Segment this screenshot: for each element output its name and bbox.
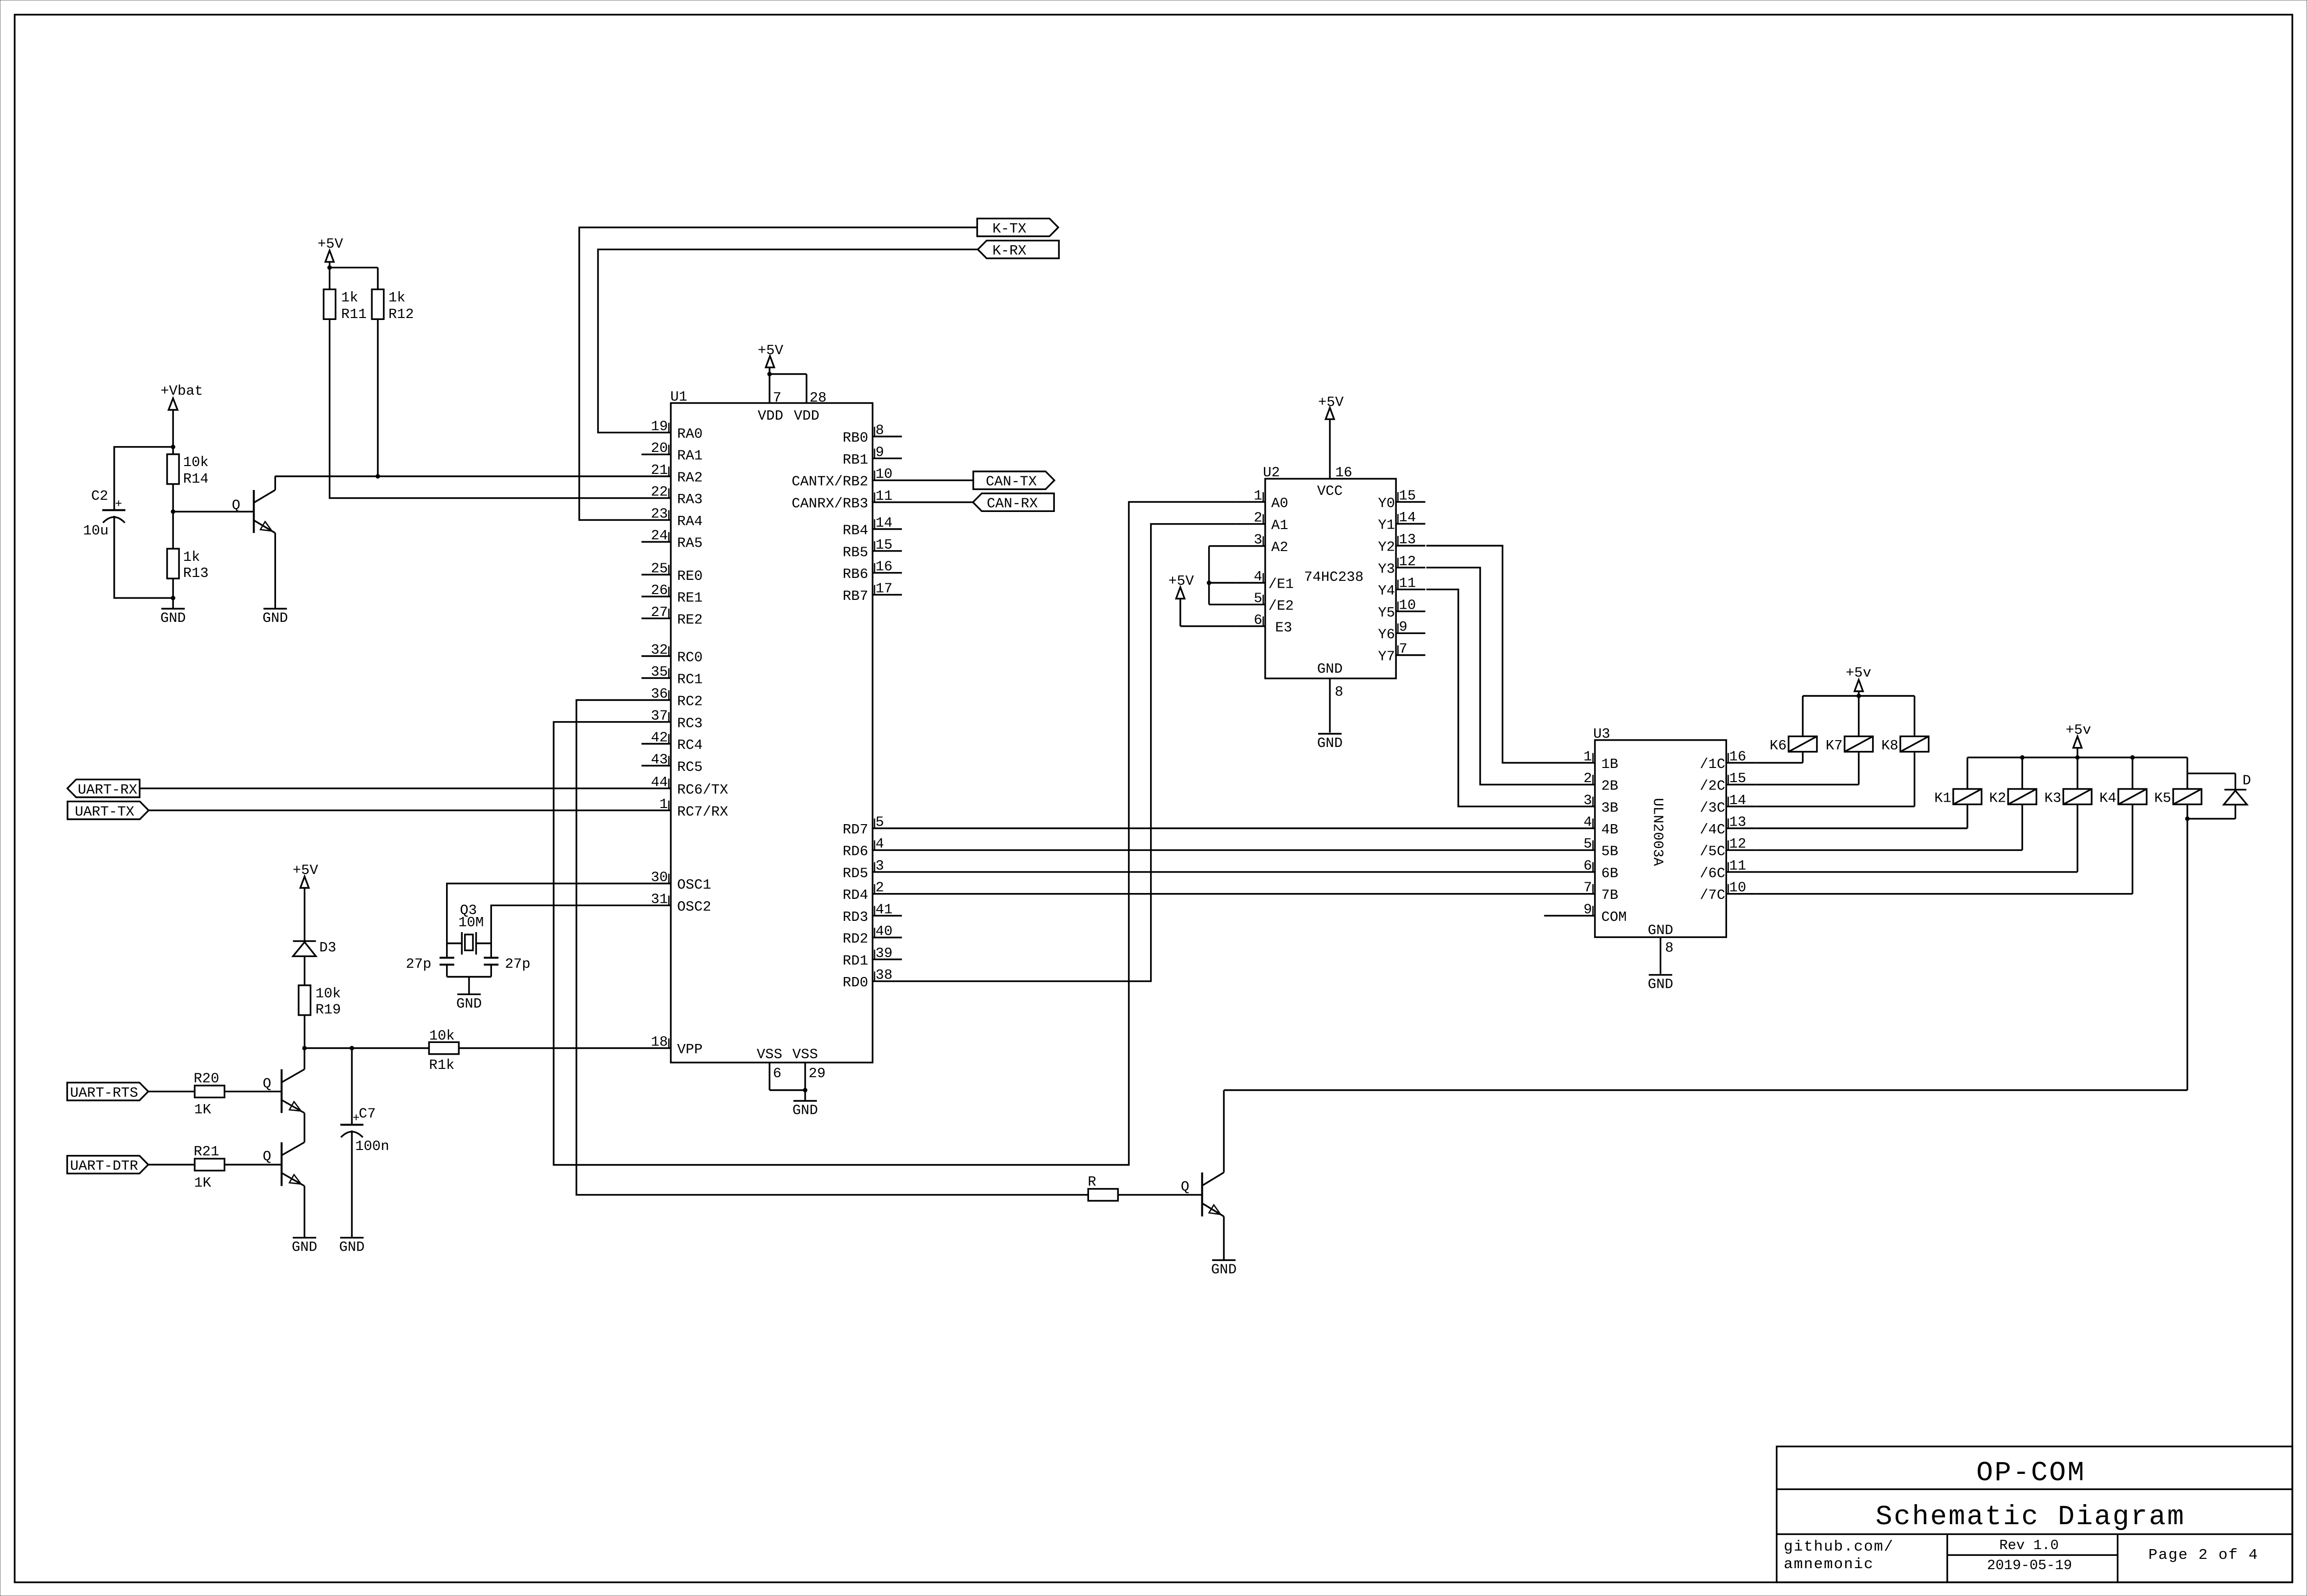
wire /3C to K8 <box>1755 806 1914 807</box>
crystal Q3 10M <box>447 902 491 955</box>
svg-text:RC5: RC5 <box>677 759 703 775</box>
svg-text:C2: C2 <box>91 488 108 504</box>
svg-text:5: 5 <box>876 814 884 830</box>
wire C7 bottom <box>351 1137 353 1238</box>
svg-text:RB7: RB7 <box>843 588 868 604</box>
U3 pin 6 6B <box>1566 858 1619 882</box>
svg-text:2: 2 <box>1583 770 1592 787</box>
svg-text:RC3: RC3 <box>677 715 703 731</box>
title block divider line 2 <box>1777 1533 2293 1535</box>
svg-text:1K: 1K <box>194 1175 211 1191</box>
svg-text:40: 40 <box>876 923 893 939</box>
wire R12 bottom to RA2 net <box>377 319 379 476</box>
wire VDD pin 28 stub <box>806 374 807 403</box>
svg-text:VSS: VSS <box>757 1046 782 1063</box>
svg-text:10u: 10u <box>83 523 108 539</box>
svg-text:24: 24 <box>651 528 668 544</box>
svg-text:U2: U2 <box>1263 465 1280 481</box>
svg-text:38: 38 <box>876 967 893 983</box>
wire RB2 to CAN-TX <box>902 480 973 481</box>
wire /1C to K6 <box>1755 762 1803 764</box>
svg-text:RA4: RA4 <box>677 513 703 530</box>
svg-text:RB4: RB4 <box>843 523 868 539</box>
svg-text:11: 11 <box>876 488 893 504</box>
svg-text:RE1: RE1 <box>677 590 703 606</box>
flag UART-TX <box>67 802 149 820</box>
ground U3 <box>1648 975 1673 993</box>
U1 pin 1 RC7/RX <box>641 796 728 820</box>
svg-text:RD5: RD5 <box>843 865 868 881</box>
relay coil K6 <box>1770 736 1817 754</box>
svg-text:Y3: Y3 <box>1378 561 1395 577</box>
U2 pin 4 /E1 <box>1236 569 1294 593</box>
U1 pin 14 RB4 <box>843 515 902 539</box>
U2 pin 10 Y5 <box>1378 597 1425 621</box>
U1 pin 38 RD0 <box>843 967 902 991</box>
svg-text:VPP: VPP <box>677 1042 703 1058</box>
IC U1 body <box>671 403 873 1063</box>
U2 pin 11 Y4 <box>1378 575 1425 599</box>
resistor R13 <box>167 549 209 581</box>
wire R21 to Q base <box>225 1164 281 1165</box>
wire R20 to Q base <box>225 1091 281 1092</box>
wire UART-TX to RC7 <box>149 809 641 811</box>
svg-text:8: 8 <box>876 423 884 439</box>
wire K8 coil top <box>1914 696 1915 737</box>
svg-text:20: 20 <box>651 440 668 456</box>
svg-text:1B: 1B <box>1602 756 1619 772</box>
svg-text:10: 10 <box>1399 597 1416 613</box>
svg-text:5B: 5B <box>1602 844 1619 860</box>
ground Q sense <box>262 609 288 626</box>
svg-text:E3: E3 <box>1275 619 1292 636</box>
wire caps to gnd rail <box>446 965 448 977</box>
capacitor 27p left <box>406 956 454 972</box>
wire R14 bottom to base node <box>172 484 174 512</box>
wire relay coil top at 4252.2 <box>2077 758 2078 789</box>
wire R14 top lead <box>172 447 174 454</box>
ground crystal <box>456 994 482 1012</box>
svg-text:K-TX: K-TX <box>992 221 1026 237</box>
svg-text:RD4: RD4 <box>843 887 868 903</box>
transistor Q (DTR) <box>263 1142 304 1186</box>
resistor R (base) <box>1088 1174 1118 1201</box>
svg-text:14: 14 <box>876 515 893 531</box>
svg-text:14: 14 <box>1729 792 1746 809</box>
U1 pin 16 RB6 <box>843 559 902 583</box>
svg-text:RC1: RC1 <box>677 672 703 688</box>
svg-text:UART-RTS: UART-RTS <box>70 1085 138 1101</box>
U1 pin 27 RE2 <box>641 604 703 628</box>
svg-text:14: 14 <box>1399 510 1416 526</box>
ground C7 <box>339 1238 364 1256</box>
wire OSC1 to crystal <box>447 884 641 944</box>
resistor R14 <box>167 454 209 487</box>
svg-text:35: 35 <box>651 664 668 680</box>
svg-text:+5v: +5v <box>2066 722 2091 738</box>
svg-text:10: 10 <box>876 466 893 482</box>
wire +5v rail K1-K5 <box>1967 757 2187 758</box>
wire relay coil top at 4364.8 <box>2132 758 2133 789</box>
svg-text:31: 31 <box>651 891 668 907</box>
svg-text:1k: 1k <box>341 290 358 306</box>
wire COM pin 9 extra stub <box>1544 915 1566 916</box>
svg-text:GND: GND <box>1317 661 1343 677</box>
U1 pin 23 RA4 <box>641 506 703 530</box>
svg-text:RC0: RC0 <box>677 650 703 666</box>
svg-text:18: 18 <box>651 1034 668 1050</box>
wire K5 drive horizontal to Q collector <box>1224 1089 2187 1091</box>
svg-text:10k: 10k <box>183 454 209 470</box>
junction dot K4 rail <box>2130 755 2135 760</box>
capacitor 27p right <box>484 956 530 972</box>
svg-text:4B: 4B <box>1602 822 1619 838</box>
svg-text:RD3: RD3 <box>843 909 868 925</box>
svg-text:3: 3 <box>876 858 884 874</box>
relay coil K1 <box>1934 789 1982 807</box>
svg-text:A0: A0 <box>1271 495 1288 511</box>
svg-text:Page 2 of 4: Page 2 of 4 <box>2148 1547 2259 1564</box>
svg-text:Y6: Y6 <box>1378 627 1395 643</box>
svg-text:RD2: RD2 <box>843 931 868 947</box>
svg-text:8: 8 <box>1335 684 1343 700</box>
wire /6C to K3 <box>1755 871 2077 872</box>
wire VSS pin 6 stub <box>769 1063 770 1090</box>
relay coil K8 <box>1881 736 1929 754</box>
svg-text:4: 4 <box>1583 814 1592 830</box>
svg-text:44: 44 <box>651 774 668 790</box>
junction dot K5/diode node <box>2185 816 2190 821</box>
svg-text:100n: 100n <box>355 1138 389 1154</box>
wire net RC3 to A0 <box>554 502 1236 1165</box>
U3 pin 5 5B <box>1566 836 1619 860</box>
ground U1 VSS <box>792 1101 818 1119</box>
wire C7 top lead <box>351 1048 353 1125</box>
svg-text:K6: K6 <box>1770 738 1787 754</box>
U1 pin 35 RC1 <box>641 664 703 688</box>
wire net RD4 to 7B <box>902 893 1566 894</box>
svg-text:GND: GND <box>339 1239 364 1256</box>
svg-text:GND: GND <box>456 996 482 1012</box>
U2 pin 9 Y6 <box>1378 619 1425 643</box>
svg-text:39: 39 <box>876 945 893 961</box>
resistor R19 <box>299 985 341 1018</box>
wire R12 top lead <box>377 268 379 290</box>
svg-text:42: 42 <box>651 730 668 746</box>
svg-text:R20: R20 <box>193 1071 219 1087</box>
wire Vbat node to C2 top <box>114 447 173 511</box>
U1 pin 37 RC3 <box>641 708 703 732</box>
flag UART-RX <box>67 780 140 798</box>
svg-text:+Vbat: +Vbat <box>160 383 203 399</box>
wire K7 coil top <box>1858 696 1859 737</box>
capacitor C7 (100n polarized) <box>341 1106 389 1154</box>
svg-text:13: 13 <box>1729 814 1746 830</box>
wire K6 coil top <box>1802 696 1803 737</box>
svg-text:Schematic Diagram: Schematic Diagram <box>1876 1502 2185 1533</box>
svg-text:R1k: R1k <box>429 1057 454 1073</box>
U1 pin 30 OSC1 <box>641 870 711 894</box>
wire RA2 net horizontal <box>275 475 642 477</box>
svg-text:17: 17 <box>876 580 893 596</box>
wire net Y2 to 1B <box>1426 546 1565 763</box>
svg-text:Y1: Y1 <box>1378 517 1395 533</box>
svg-text:Y4: Y4 <box>1378 583 1395 599</box>
svg-text:RA1: RA1 <box>677 448 703 464</box>
svg-text:COM: COM <box>1602 909 1627 925</box>
svg-text:UART-RX: UART-RX <box>78 782 137 798</box>
U1 pin 42 RC4 <box>641 730 703 754</box>
diode D (flyback) <box>2224 773 2251 805</box>
resistor R1k (10k) <box>429 1028 459 1073</box>
wire VSS pin 29 stub <box>804 1063 806 1090</box>
svg-text:github.com/: github.com/ <box>1784 1538 1894 1555</box>
wire R to Q base <box>1118 1194 1201 1195</box>
svg-text:/5C: /5C <box>1700 844 1725 860</box>
junction dot base node <box>171 510 175 514</box>
svg-text:VDD: VDD <box>794 408 819 424</box>
U3 pin 9 COM <box>1566 901 1627 925</box>
ground Q driver <box>1211 1260 1237 1278</box>
svg-text:GND: GND <box>262 610 288 626</box>
wire RB3 to CAN-RX <box>902 501 973 503</box>
svg-text:16: 16 <box>876 559 893 575</box>
U1 pin 9 RB1 <box>843 444 902 468</box>
junction dot C7 top <box>350 1046 354 1050</box>
svg-text:ULN2003A: ULN2003A <box>1650 798 1666 866</box>
wire relay coil top at 4139.2 <box>2022 758 2023 789</box>
svg-text:15: 15 <box>1399 488 1416 504</box>
power +5V symbol at U2 E3 <box>1168 573 1194 626</box>
U1 pin 41 RD3 <box>843 901 902 925</box>
svg-text:13: 13 <box>1399 532 1416 548</box>
wire Q RTS emitter to Q DTR collector <box>304 1113 305 1142</box>
power +5V symbol at U1 VDD <box>758 342 784 374</box>
svg-text:/2C: /2C <box>1700 778 1725 794</box>
wire diode bottom to K5 node <box>2235 805 2236 819</box>
wire U2 GND pin 8 stub <box>1329 679 1330 733</box>
junction dot K3 rail <box>2075 755 2080 760</box>
svg-text:RC2: RC2 <box>677 694 703 710</box>
wire /E2 link <box>1209 604 1236 605</box>
svg-text:D3: D3 <box>320 940 337 956</box>
svg-text:Q: Q <box>263 1076 271 1092</box>
IC U3 body <box>1595 740 1727 937</box>
wire K5 bottom to node <box>2186 805 2188 819</box>
U3 pin 13 /4C <box>1700 814 1755 838</box>
wire C2 bottom <box>114 523 173 598</box>
svg-text:GND: GND <box>292 1239 317 1256</box>
svg-text:1k: 1k <box>388 290 406 306</box>
transistor Q (RTS) <box>263 1069 304 1113</box>
wire to ground <box>172 598 174 609</box>
U3 pin 3 3B <box>1566 792 1619 816</box>
svg-text:VCC: VCC <box>1317 483 1343 499</box>
wire OSC2 to crystal <box>491 905 641 943</box>
svg-text:RB6: RB6 <box>843 566 868 582</box>
svg-text:D: D <box>2243 773 2251 789</box>
resistor R12 <box>372 289 414 322</box>
svg-text:36: 36 <box>651 686 668 702</box>
wire VPP net right segment <box>459 1047 641 1049</box>
svg-text:CANRX/RB3: CANRX/RB3 <box>791 496 868 512</box>
svg-text:/1C: /1C <box>1700 756 1725 772</box>
svg-text:7: 7 <box>773 390 781 406</box>
svg-text:GND: GND <box>1317 735 1343 751</box>
power +5V symbol D3 <box>293 862 319 941</box>
junction dot R12/RA2 <box>376 474 380 478</box>
svg-text:RD1: RD1 <box>843 953 868 969</box>
svg-text:RA5: RA5 <box>677 535 703 552</box>
U1 pin 32 RC0 <box>641 642 703 666</box>
svg-text:K3: K3 <box>2044 790 2061 807</box>
svg-text:CAN-TX: CAN-TX <box>986 474 1037 490</box>
U1 pin 25 RE0 <box>641 560 703 584</box>
svg-text:7: 7 <box>1399 641 1407 657</box>
U1 pin 2 RD4 <box>843 880 902 904</box>
U3 pin 10 /7C <box>1700 880 1755 904</box>
svg-text:1: 1 <box>1583 748 1592 765</box>
ground Q pair <box>292 1238 317 1256</box>
wire net Y3 to 2B <box>1426 568 1565 785</box>
wire /E1 link <box>1209 582 1236 583</box>
svg-text:1K: 1K <box>194 1102 211 1118</box>
svg-text:10: 10 <box>1729 880 1746 896</box>
U1 pin 22 RA3 <box>641 484 703 508</box>
flag CAN-TX <box>973 471 1054 490</box>
svg-text:27p: 27p <box>406 956 431 972</box>
U1 pin 39 RD1 <box>843 945 902 969</box>
U2 pin 5 /E2 <box>1236 590 1294 614</box>
svg-text:OP-COM: OP-COM <box>1976 1458 2086 1489</box>
wire VDD pin 7 stub <box>769 374 770 403</box>
wire U1 GND stem <box>804 1090 806 1101</box>
wire base node to Q base <box>173 511 253 512</box>
svg-text:R14: R14 <box>183 471 209 487</box>
U3 pin 14 /3C <box>1700 792 1755 816</box>
wire A2 link <box>1209 545 1236 547</box>
U1 pin 5 RD7 <box>843 814 902 838</box>
svg-text:10M: 10M <box>458 915 484 931</box>
svg-text:25: 25 <box>651 560 668 576</box>
wire crystal gnd stem <box>468 977 470 995</box>
U1 pin 17 RB7 <box>843 580 902 604</box>
wire A2-/E1-/E2 tie vertical <box>1208 546 1210 605</box>
junction dot VSS node <box>803 1088 807 1092</box>
svg-text:8: 8 <box>1665 940 1673 956</box>
svg-text:43: 43 <box>651 751 668 767</box>
U1 pin 18 VPP <box>641 1034 703 1058</box>
svg-text:R13: R13 <box>183 565 209 581</box>
junction dot K7 rail <box>1857 694 1861 698</box>
U2 pin 3 A2 <box>1236 532 1288 556</box>
svg-text:27: 27 <box>651 604 668 620</box>
svg-text:11: 11 <box>1729 858 1746 874</box>
svg-text:4: 4 <box>1254 569 1262 585</box>
svg-text:K5: K5 <box>2154 790 2171 807</box>
svg-text:1k: 1k <box>183 549 200 565</box>
svg-text:Y7: Y7 <box>1378 649 1395 665</box>
svg-text:U3: U3 <box>1593 726 1610 742</box>
wire +5v rail K6-K8 <box>1803 695 1915 697</box>
svg-text:5: 5 <box>1583 836 1592 852</box>
svg-text:/3C: /3C <box>1700 800 1725 816</box>
U2 pin 12 Y3 <box>1378 553 1425 577</box>
svg-text:UART-TX: UART-TX <box>75 804 134 820</box>
svg-text:K7: K7 <box>1826 738 1843 754</box>
svg-text:11: 11 <box>1399 575 1416 592</box>
U1 pin 26 RE1 <box>641 582 703 606</box>
svg-text:32: 32 <box>651 642 668 658</box>
svg-text:6: 6 <box>773 1065 781 1082</box>
U2 pin 13 Y2 <box>1378 532 1425 555</box>
relay coil K7 <box>1826 736 1873 754</box>
wire net RD7 to 4B <box>902 828 1566 829</box>
wire /5C to K2 <box>1755 849 2022 851</box>
wire Q RTS collector up to VPP node <box>304 1048 305 1069</box>
transistor Q (relay driver) <box>1181 1172 1224 1216</box>
U2 pin 15 Y0 <box>1378 488 1425 511</box>
junction dot R13/C2/GND <box>171 596 175 600</box>
svg-text:R: R <box>1088 1174 1096 1190</box>
power +5V symbol at U2 VCC <box>1318 394 1344 479</box>
junction dot K2 rail <box>2020 755 2025 760</box>
wire K-TX to RA4 <box>579 228 978 520</box>
wire crystal right down to cap <box>491 943 492 958</box>
svg-text:5: 5 <box>1254 590 1262 606</box>
U3 pin 12 /5C <box>1700 836 1755 860</box>
svg-text:30: 30 <box>651 870 668 886</box>
svg-text:/E1: /E1 <box>1268 576 1294 593</box>
svg-text:3: 3 <box>1583 792 1592 809</box>
wire net RD5 to 6B <box>902 871 1566 872</box>
wire /7C to K4 <box>1755 893 2132 894</box>
svg-text:OSC1: OSC1 <box>677 877 711 893</box>
svg-text:21: 21 <box>651 462 668 478</box>
resistor R11 <box>323 289 366 322</box>
wire K5 node down long vertical <box>2186 819 2188 1090</box>
svg-text:RB5: RB5 <box>843 544 868 560</box>
svg-text:22: 22 <box>651 484 668 500</box>
resistor R20 1K <box>193 1071 224 1118</box>
svg-text:GND: GND <box>1648 922 1673 938</box>
U1 pin 20 RA1 <box>641 440 703 464</box>
transistor Q (Vbat sense) <box>232 490 275 533</box>
svg-text:/E2: /E2 <box>1268 598 1294 614</box>
U1 pin 4 RD6 <box>843 836 902 860</box>
wire D3 to R19 <box>304 956 305 985</box>
svg-text:7: 7 <box>1583 880 1592 896</box>
flag UART-DTR <box>67 1156 149 1174</box>
svg-text:RD0: RD0 <box>843 975 868 991</box>
svg-text:12: 12 <box>1729 836 1746 852</box>
U3 pin 11 /6C <box>1700 858 1755 882</box>
svg-text:+5V: +5V <box>293 862 319 878</box>
wire crystal left down to cap <box>446 943 448 958</box>
svg-text:74HC238: 74HC238 <box>1304 569 1364 585</box>
power +Vbat symbol <box>160 383 203 447</box>
wire VDD node horizontal <box>769 373 807 375</box>
U1 pin 19 RA0 <box>641 418 703 442</box>
flag UART-RTS <box>67 1083 149 1101</box>
junction dot on /E1 <box>1207 580 1211 585</box>
junction dot R19/VPP <box>302 1046 307 1050</box>
svg-text:Y5: Y5 <box>1378 605 1395 621</box>
svg-text:GND: GND <box>160 610 186 626</box>
svg-text:41: 41 <box>876 901 893 917</box>
wire net RD0 to A1 <box>902 524 1236 981</box>
U2 pin 6 E3 <box>1236 612 1292 636</box>
